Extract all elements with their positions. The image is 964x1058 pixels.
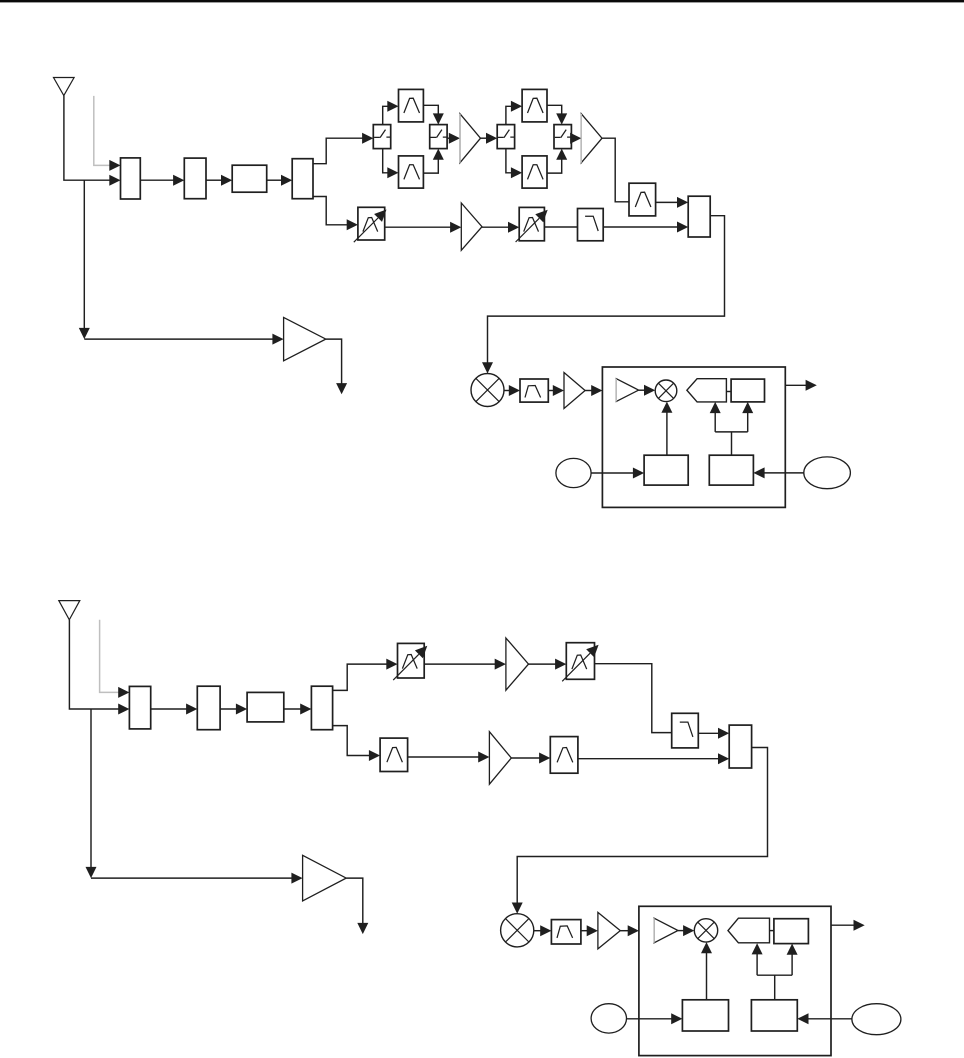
wire internal amp to mixer bbox=[639, 389, 645, 391]
switch S2 symbol bbox=[431, 130, 447, 138]
wire H1 to amp A4 bbox=[548, 390, 553, 392]
switch S1 symbol bbox=[374, 130, 390, 138]
wire BPF E1 to combiner bbox=[656, 201, 678, 203]
wire Y horizontal bbox=[715, 431, 748, 433]
arrow into splitter 2 bbox=[300, 704, 311, 715]
block B1 bbox=[184, 158, 206, 199]
block A2 (front-end) bbox=[129, 686, 150, 729]
wire C2 to splitter 2 bbox=[284, 708, 301, 710]
wire V2 to LPF F1 bbox=[544, 226, 577, 228]
wire pentagon to divider bbox=[726, 391, 731, 393]
wire to bypass amp 2 bbox=[91, 877, 292, 879]
filter BPF B2 symbol bbox=[528, 165, 544, 180]
switch S3 bbox=[497, 125, 514, 149]
arrow into tunable filter V1 bbox=[347, 219, 358, 230]
divider block 2 bbox=[774, 919, 809, 944]
arrow into amp A4 bbox=[553, 385, 564, 396]
arrow control into block A2 bbox=[118, 687, 129, 698]
wire B1 to C1 bbox=[206, 179, 222, 181]
wire A4 to demod box bbox=[585, 390, 592, 392]
wire O1 to L1 bbox=[591, 472, 633, 474]
page top rule bbox=[0, 0, 964, 2]
arrow into tunable filter V3 bbox=[386, 659, 397, 670]
control block L2 bbox=[709, 455, 753, 485]
arrow demod output bbox=[806, 380, 817, 391]
amplifier U2 internal bbox=[654, 918, 678, 943]
wire B2 to C2 bbox=[220, 708, 236, 710]
wire BPF T1 to S2 bbox=[423, 105, 438, 113]
demodulator box U2 bbox=[639, 906, 831, 1055]
arrow into amp A6 bbox=[478, 752, 489, 763]
arrow into internal mixer bbox=[644, 385, 655, 396]
arrow up into pentagon 2 bbox=[752, 943, 763, 954]
amplifier A3 bbox=[461, 203, 482, 250]
amplifier U1 internal bbox=[616, 379, 638, 402]
wire branch to bypass amp bbox=[83, 180, 85, 328]
wire M1 to BPF H1 bbox=[504, 390, 509, 392]
filter BPF J1 symbol bbox=[387, 747, 403, 762]
arrow into combiner bottom bbox=[677, 222, 688, 233]
tunable filter V1 symbol bbox=[363, 218, 378, 232]
wire V1 to amp A3 bbox=[385, 226, 451, 228]
amplifier bypass LNA1 bbox=[284, 317, 326, 360]
wire J1 to amp A6 bbox=[408, 756, 479, 758]
arrow into B2 bbox=[186, 704, 197, 715]
loop filter block L1 bbox=[644, 455, 688, 485]
lowpass filter F2 symbol bbox=[680, 722, 693, 737]
wire A1 to B1 bbox=[140, 179, 173, 181]
lowpass filter F1 bbox=[578, 209, 604, 241]
arrow up into internal mixer bbox=[661, 402, 672, 413]
wire BPF T2 to S4 bbox=[547, 105, 562, 113]
wire bypass amp output bbox=[326, 339, 342, 384]
tunable filter V3 symbol bbox=[402, 655, 417, 669]
arrow into BPF J1 bbox=[369, 750, 380, 761]
arrow down at bend bbox=[79, 328, 90, 339]
wire F1 to combiner bbox=[603, 226, 677, 228]
amplifier A6 bbox=[489, 732, 511, 785]
wire S3 top to BPF T2 bbox=[506, 106, 512, 124]
wire Y2 horizontal bbox=[757, 974, 792, 976]
arrow up into divider 2 bbox=[787, 944, 798, 955]
block C1 (wide) bbox=[232, 165, 267, 192]
wire to bypass amp bbox=[84, 338, 273, 340]
VCO block 2 (pentagon) bbox=[728, 918, 770, 943]
arrow into demodulator box bbox=[591, 385, 602, 396]
arrow into amp A2 bbox=[570, 133, 581, 144]
filter BPF E1 symbol bbox=[635, 192, 651, 207]
wire pentagon 2 to divider 2 bbox=[770, 930, 774, 932]
wire S3 bottom to BPF B2 bbox=[506, 149, 512, 173]
wire BPF B1 to S2 bbox=[423, 159, 438, 173]
wire O2 to L2 bbox=[764, 472, 804, 474]
combiner G1 bbox=[688, 196, 710, 237]
arrow into BPF H1 bbox=[509, 385, 520, 396]
filter BPF T2 symbol bbox=[528, 98, 544, 113]
filter BPF B1 bbox=[399, 156, 424, 188]
control block L4 bbox=[751, 1000, 797, 1031]
block A1 (front-end) bbox=[121, 158, 141, 199]
amplifier A5 bbox=[506, 638, 529, 690]
wire S1 top to BPF T1 bbox=[383, 106, 388, 124]
arrow up into switch S4 bbox=[556, 149, 567, 160]
tunable filter V2 symbol bbox=[524, 218, 539, 232]
filter BPF B1 symbol bbox=[404, 165, 420, 180]
wire Y left up bbox=[714, 413, 716, 432]
block splitter D2 bbox=[311, 686, 332, 730]
arrow down into mixer M1 bbox=[482, 362, 493, 373]
arrow into BPF J2 bbox=[539, 753, 550, 764]
arrow into BPF T2 bbox=[511, 101, 522, 112]
arrow into BPF T1 bbox=[387, 101, 398, 112]
amplifier A7 bbox=[598, 912, 620, 949]
arrow into BPF B2 bbox=[511, 167, 522, 178]
arrow into switch S1 bbox=[362, 133, 373, 144]
wire splitter 2 bottom out bbox=[333, 726, 370, 756]
tunable filter V2 tuning arrow bbox=[516, 218, 540, 242]
mixer M4 internal bbox=[694, 919, 717, 942]
tunable filter V1 bbox=[358, 207, 385, 240]
wire Y2 left up bbox=[756, 954, 758, 975]
antenna ANT2 bbox=[59, 601, 80, 620]
wire O4 to L4 bbox=[808, 1018, 852, 1020]
wire Y2 right up bbox=[791, 954, 793, 975]
arrow into switch S3 bbox=[486, 133, 497, 144]
wire Y right up bbox=[747, 413, 749, 432]
arrow left into L2 bbox=[753, 467, 764, 478]
wire demod output bbox=[785, 384, 806, 386]
antenna ANT1 bbox=[54, 78, 75, 96]
arrow into C1 bbox=[221, 175, 232, 186]
amplifier A2 bbox=[581, 114, 602, 163]
wire O3 to L3 bbox=[627, 1018, 672, 1020]
arrow control into block A bbox=[109, 160, 120, 171]
amplifier bypass LNA2 bbox=[303, 855, 347, 901]
wire S1 bottom to BPF B1 bbox=[383, 149, 388, 173]
oscillator ellipse right O4 bbox=[852, 1004, 901, 1035]
wire S2 to amp A1 bbox=[447, 137, 449, 139]
lowpass filter F1 symbol bbox=[585, 216, 598, 231]
tunable filter V4 tuning arrow bbox=[562, 653, 590, 681]
arrow into amp A7 bbox=[587, 925, 598, 936]
wire combiner G2 to mixer M3 bbox=[517, 748, 767, 904]
wire antenna ANT2 lead bbox=[69, 620, 118, 709]
filter BPF T2 bbox=[522, 89, 547, 122]
block C2 (wide) bbox=[247, 692, 284, 722]
arrow into tunable filter V4 bbox=[555, 659, 566, 670]
wire splitter bottom out bbox=[313, 197, 347, 225]
tunable filter V2 bbox=[519, 207, 544, 240]
block B2 bbox=[197, 686, 220, 730]
oscillator ellipse left O3 bbox=[591, 1004, 626, 1033]
arrow up into internal mixer 2 bbox=[701, 942, 712, 953]
tunable filter V3 bbox=[398, 643, 425, 678]
arrow into combiner 2 top bbox=[718, 728, 729, 739]
arrow into tunable filter V2 bbox=[508, 222, 519, 233]
arrow into combiner top bbox=[677, 197, 688, 208]
arrow down into switch S4 bbox=[556, 113, 567, 124]
switch S2 bbox=[430, 125, 447, 149]
wire bypass amp 2 output bbox=[346, 878, 363, 923]
wire V4 to LPF F2 bbox=[595, 664, 672, 733]
arrow into internal mixer 2 bbox=[683, 925, 694, 936]
arrow into block A2 (RF input) bbox=[118, 704, 129, 715]
arrow into C2 bbox=[236, 704, 247, 715]
wire demod 2 output bbox=[831, 924, 854, 926]
arrow into L1 bbox=[633, 468, 644, 479]
filter BPF J2 bbox=[550, 737, 578, 774]
arrow into bypass amp bbox=[272, 334, 283, 345]
mixer M1 bbox=[471, 374, 504, 407]
VCO block (pentagon) bbox=[687, 379, 727, 402]
tunable filter V4 bbox=[566, 643, 594, 680]
arrow into amp A5 bbox=[495, 659, 506, 670]
wire A5 to tunable filter V4 bbox=[529, 663, 556, 665]
arrow down into mixer M3 bbox=[512, 903, 523, 914]
arrow into BPF B1 bbox=[387, 167, 398, 178]
filter BPF T1 symbol bbox=[404, 98, 420, 113]
wire L1 up to mixer bbox=[666, 412, 668, 455]
amplifier A1 bbox=[460, 114, 481, 163]
arrow up into switch S2 bbox=[433, 149, 444, 160]
arrow into BPF H2 bbox=[540, 925, 551, 936]
arrow left into L4 bbox=[797, 1013, 808, 1024]
filter BPF E1 bbox=[629, 183, 656, 216]
arrow into B1 bbox=[173, 175, 184, 186]
arrow into amp A1 bbox=[449, 133, 460, 144]
arrow into amp A3 bbox=[450, 222, 461, 233]
block splitter D1 bbox=[292, 159, 313, 199]
wire L3 up to mixer 2 bbox=[706, 953, 708, 1000]
mixer M3 bbox=[501, 914, 534, 947]
wire internal amp 2 to mixer bbox=[678, 930, 684, 932]
wire F2 to combiner 2 bbox=[698, 732, 718, 734]
filter BPF T1 bbox=[399, 89, 424, 122]
tunable filter V1 tuning arrow bbox=[354, 218, 378, 242]
wire A2 to BPF E1 bbox=[602, 138, 629, 202]
filter BPF B2 bbox=[522, 156, 547, 188]
arrow into L3 bbox=[671, 1013, 682, 1024]
wire combiner G1 to mixer M1 bbox=[488, 216, 725, 363]
filter BPF H2 symbol bbox=[557, 926, 573, 938]
switch S4 symbol bbox=[555, 130, 571, 138]
demodulator box U1 bbox=[602, 367, 785, 507]
oscillator ellipse right O2 bbox=[804, 457, 851, 489]
wire J2 to combiner 2 bbox=[578, 758, 719, 760]
arrow into demodulator box 2 bbox=[628, 925, 639, 936]
wire antenna ANT1 lead bbox=[64, 96, 110, 181]
tunable filter V3 tuning arrow bbox=[393, 654, 419, 680]
wire branch to bypass amp 2 bbox=[90, 709, 92, 868]
arrow bypass 2 output down bbox=[357, 923, 368, 934]
arrow demod 2 output bbox=[854, 920, 865, 931]
arrow into bypass amp 2 bbox=[291, 873, 302, 884]
wire A3 to tunable filter V2 bbox=[482, 226, 509, 228]
lowpass filter F2 bbox=[672, 713, 699, 748]
switch S4 bbox=[554, 125, 571, 149]
switch S3 symbol bbox=[498, 130, 514, 138]
wire H2 to amp A7 bbox=[581, 930, 587, 932]
tunable filter V4 symbol bbox=[572, 655, 587, 669]
arrow bypass output down bbox=[336, 383, 347, 394]
filter BPF H1 bbox=[520, 379, 548, 402]
switch S1 bbox=[373, 125, 390, 149]
amplifier A4 bbox=[564, 373, 585, 409]
wire splitter top out bbox=[313, 138, 363, 164]
wire L2 to pentagon and divider bbox=[731, 432, 733, 455]
mixer M2 internal bbox=[655, 380, 677, 402]
wire A1 to switch S3 bbox=[481, 137, 487, 139]
combiner G2 bbox=[729, 725, 751, 768]
wire A6 to BPF J2 bbox=[511, 757, 539, 759]
divider block bbox=[731, 379, 764, 402]
wire BPF B2 to S4 bbox=[547, 159, 562, 173]
oscillator ellipse left O1 bbox=[556, 458, 591, 487]
wire V3 to amp A5 bbox=[424, 663, 495, 665]
wire A7 to demod box 2 bbox=[620, 930, 628, 932]
arrow up into pentagon bbox=[710, 402, 721, 413]
filter BPF H2 bbox=[551, 920, 581, 944]
filter BPF H1 symbol bbox=[525, 386, 541, 398]
loop filter block L3 bbox=[682, 1000, 728, 1031]
arrow down into switch S2 bbox=[433, 113, 444, 124]
wire control input 2 (gray) bbox=[100, 620, 119, 693]
arrow down at bend 2 bbox=[86, 867, 97, 878]
filter BPF J2 symbol bbox=[557, 748, 573, 763]
filter BPF J1 bbox=[380, 738, 408, 771]
arrow into splitter bbox=[281, 175, 292, 186]
wire M3 to BPF H2 bbox=[534, 930, 541, 932]
wire splitter 2 top out bbox=[333, 664, 387, 690]
wire A2 to B2 bbox=[151, 708, 187, 710]
arrow into block A (RF input) bbox=[109, 175, 120, 186]
wire control input (gray) bbox=[94, 96, 111, 165]
arrow into combiner 2 bottom bbox=[718, 753, 729, 764]
arrow up into divider bbox=[742, 402, 753, 413]
wire L4 to pentagon 2 and divider 2 bbox=[774, 975, 776, 1000]
wire C1 to splitter bbox=[267, 179, 282, 181]
wire S4 to amp A2 bbox=[570, 137, 573, 139]
